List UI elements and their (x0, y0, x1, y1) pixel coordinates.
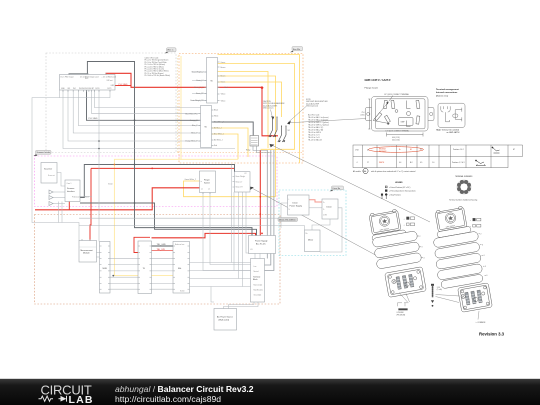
svg-text:+ DC COM24 used: + DC COM24 used (102, 76, 116, 78)
svg-text:Brown: Brown (221, 66, 226, 69)
Motor box (305, 230, 321, 252)
svg-text:OUT0: OUT0 (95, 88, 100, 90)
svg-text:Balancer box: Balancer box (175, 244, 185, 246)
connector assembly 2 band callouts (479, 234, 488, 278)
svg-text:Strain Weight_TR: Strain Weight_TR (190, 99, 204, 102)
Driver box (322, 199, 338, 219)
svg-text:Orange_P: Orange_P (190, 119, 199, 122)
svg-text:o2: o2 (208, 189, 210, 191)
svg-text:Red: Red (214, 145, 217, 147)
svg-text:Green: Green (221, 61, 226, 64)
svg-text:L: L (289, 199, 290, 201)
svg-text:abhungal / Balancer Circuit Re: abhungal / Balancer Circuit Rev3.2 (115, 384, 254, 394)
svg-text:Cam 1: Cam 1 (67, 183, 72, 185)
Scanner Interface box (65, 180, 89, 202)
svg-text:Measurement: Measurement (81, 249, 94, 252)
wire red TBL_24V stub (152, 250, 174, 252)
wire gray driver area (281, 203, 342, 252)
wire red scanner to measurement module (90, 168, 91, 240)
tag Drive Box (330, 186, 344, 191)
terminal strip TB1 top (190, 58, 227, 104)
svg-text:Green: Green (221, 81, 226, 84)
tag note top (165, 48, 177, 54)
svg-text:2-56: 2-56 (437, 287, 440, 289)
svg-text:DC 5 PS2 Output: DC 5 PS2 Output (61, 75, 75, 78)
svg-text:Power Supply: Power Supply (290, 205, 302, 207)
svg-text:2: 2 (420, 236, 421, 238)
wire red from PLC to switch (106, 73, 278, 136)
connector assembly 2 callout icons (470, 218, 481, 228)
svg-text:Internal connections: Internal connections (436, 91, 458, 94)
svg-text:2: 2 (481, 234, 482, 236)
Scanner box (41, 163, 57, 184)
svg-text:Strain_LT: Strain_LT (196, 79, 203, 82)
svg-text:IN2: IN2 (73, 88, 76, 90)
svg-text:K2: K2 (245, 173, 247, 175)
svg-text:Scanner: Scanner (67, 188, 75, 190)
connector assembly 1 band callouts (418, 236, 425, 260)
leader caution note to switch (271, 110, 273, 118)
wire red relay to power supply (259, 150, 261, 236)
wire gray relay bundle down (79, 165, 305, 287)
text block switch note (263, 100, 285, 110)
svg-text:Strain_RT: Strain_RT (196, 92, 204, 95)
svg-text:Red: Red (225, 87, 228, 89)
svg-text:Yellow: Yellow (221, 100, 227, 102)
svg-text:LEGEND: LEGEND (395, 182, 403, 184)
svg-text:TB2: TB2 (204, 127, 207, 129)
svg-text:27: 27 (367, 162, 369, 164)
group box Drive Box (cyan dashed) (279, 190, 346, 256)
connector assembly 1 bands (372, 231, 422, 270)
terminal arrangement drawing (436, 88, 465, 134)
svg-text:+: + (470, 220, 472, 222)
svg-text:0.250 REF: 0.250 REF (397, 312, 404, 314)
svg-text:Bk Blue_J: Bk Blue_J (214, 128, 222, 130)
node red junction (260, 86, 263, 90)
svg-text:White_P: White_P (191, 132, 198, 135)
group box Balancer Box (orange dashed) (179, 54, 303, 164)
wire red PLC right pin stub (115, 85, 131, 87)
svg-text:Driver: Driver (327, 207, 333, 209)
group box Scanner Interface (pink dashed) (35, 156, 278, 207)
svg-text:Blue_P: Blue_P (192, 125, 198, 127)
svg-text:V+: V+ (323, 202, 325, 204)
wire red to finger switch (35, 188, 200, 210)
switch S2 poles (270, 117, 287, 141)
svg-text:LAB: LAB (69, 394, 93, 405)
leader line A switches to connector drawing (288, 119, 366, 123)
svg-text:= Pole and position in these p: = Pole and position in these positions (389, 190, 416, 193)
Finger Switch box (108, 171, 216, 194)
svg-text:Scanner: Scanner (44, 168, 52, 171)
svg-text:AC Power Source: AC Power Source (217, 316, 234, 319)
wire red long horizontal scanner-interface to relay (91, 167, 235, 169)
connector assembly 1 cap (369, 209, 401, 235)
tag Scanner Interface (34, 150, 52, 156)
svg-text:Relay: Relay (246, 150, 250, 152)
svg-text:Green White_2: Green White_2 (185, 178, 196, 181)
leader switch to note (288, 107, 306, 123)
svg-text:(TB) Depressed: (TB) Depressed (306, 105, 318, 108)
svg-text:Box Wir: Box Wir (293, 49, 300, 51)
svg-text:Terminal arrangement: Terminal arrangement (436, 88, 459, 91)
svg-text:PLC GND: PLC GND (119, 84, 128, 86)
tag Box Wire (290, 47, 303, 53)
common label (476, 311, 487, 324)
svg-text:Driver: Driver (293, 203, 299, 205)
connector assembly 2 rib (437, 226, 472, 238)
svg-text:GMP: GMP (401, 122, 406, 124)
text block box wire code (308, 114, 329, 142)
wire gray power supply to terminal block (97, 252, 261, 308)
leader line C relay K2 to assembly1 (249, 187, 381, 259)
group box inner yellow dashed (178, 57, 180, 153)
wire red TB row to power supply (152, 233, 256, 237)
wire yellow finger-switch (184, 181, 276, 197)
terminal strip TB2 mid (185, 106, 224, 148)
svg-text:TB-1-B to BAL-CB: TB-1-B to BAL-CB (308, 139, 323, 142)
svg-text:GMP-1C2T-F / 1A2T-F: GMP-1C2T-F / 1A2T-F (365, 78, 392, 82)
wire gray finger switch to terminal block (203, 193, 251, 271)
wire dark TB2 to relay K1 (212, 122, 254, 146)
svg-text:All models: All models (353, 170, 361, 173)
svg-text:with all options when ordered: with all options when ordered with 'C' o… (371, 170, 416, 173)
svg-text:Green: Green (108, 183, 113, 186)
svg-text:M+: M+ (306, 233, 308, 235)
tag Motor TB (278, 218, 298, 222)
svg-text:1.5: 1.5 (420, 149, 422, 151)
svg-text:o1: o1 (201, 189, 203, 191)
svg-text:on GMP-1A2T-F: on GMP-1A2T-F (447, 131, 461, 134)
wire dark scanner run (80, 165, 235, 198)
leader line B relay to assembly2 (270, 144, 431, 222)
svg-text:40.4 (1.59): 40.4 (1.59) (392, 137, 400, 139)
svg-text:Revision 3.3: Revision 3.3 (479, 332, 505, 337)
svg-text:5: 5 (485, 266, 486, 268)
svg-text:4: 4 (484, 255, 485, 257)
switch contact dots (269, 116, 287, 142)
svg-text:Brown: Brown (221, 75, 226, 78)
svg-text:Interface: Interface (67, 190, 76, 193)
connector assembly 1 leaders and dim (398, 293, 410, 311)
connector assembly 1 callout icons (404, 217, 415, 227)
svg-text:AC-TO-DC: AC-TO-DC (256, 242, 266, 245)
svg-text:IN3 IN4 IN5 IN6 IN7: IN3 IN4 IN5 IN6 IN7 (79, 88, 94, 90)
wire dark PLC GND (87, 90, 201, 120)
svg-text:(2.95): (2.95) (361, 114, 365, 116)
svg-text:24V out: 24V out (107, 79, 113, 82)
svg-text:B-2: B-2 (410, 162, 413, 164)
footer bar (0, 379, 540, 405)
svg-text:Black: Black (214, 110, 218, 112)
svg-text:75.0: 75.0 (362, 112, 365, 114)
svg-text:Blue White_J: Blue White_J (214, 121, 224, 124)
Measurement Module box (79, 239, 97, 262)
svg-text:IN1: IN1 (68, 88, 71, 90)
svg-text:(Bottom view): (Bottom view) (436, 94, 449, 97)
table switch glyph row2 (475, 160, 485, 166)
CircuitLab logo (39, 382, 93, 405)
svg-text:Drive Bo: Drive Bo (333, 188, 342, 190)
svg-text:Motor_TB_CW/rev: Motor_TB_CW/rev (279, 218, 296, 221)
connector assembly 2 bands (433, 231, 483, 289)
svg-text:0.5: 0.5 (420, 162, 422, 164)
svg-text:Motor: Motor (308, 239, 313, 242)
wire dark PLC top loop to power supply (69, 62, 252, 236)
svg-text:Scanner Interfa: Scanner Interfa (37, 151, 52, 154)
wire salmon driver supply (309, 200, 322, 202)
wire dark TBL_GND stub (152, 245, 174, 247)
wire pale-yellow long run to BAL block (114, 56, 181, 276)
svg-text:3: 3 (482, 244, 483, 246)
svg-text:Strain Weight_2: Strain Weight_2 (192, 71, 204, 74)
svg-text:ET: ET (513, 149, 515, 151)
svg-text:PCA scanner interface: PCA scanner interface (72, 195, 89, 198)
Power Supply box (249, 236, 276, 254)
svg-text:Wire C: Wire C (167, 50, 174, 52)
connector assembly 2 base (458, 283, 493, 313)
svg-text:6: 6 (487, 275, 488, 277)
svg-text:Orange White_P: Orange White_P (185, 140, 198, 143)
svg-text:1.0: 1.0 (432, 162, 434, 164)
svg-text:Terminal: Terminal (253, 276, 261, 279)
svg-text:Blue White_J: Blue White_J (214, 133, 224, 136)
svg-text:PLC GND: PLC GND (89, 118, 98, 120)
svg-text:White: White (214, 115, 218, 118)
svg-text:B+: B+ (399, 149, 401, 151)
terminal block TB-A (100, 242, 111, 294)
wire gray IC2 left stubs (192, 72, 207, 101)
ratings table (353, 145, 523, 168)
svg-text:Blue White_Pha: Blue White_Pha (185, 112, 197, 115)
svg-text:(Wall outlet): (Wall outlet) (219, 318, 230, 321)
wire dark lower run (80, 203, 257, 236)
connector arrows scanner (49, 190, 53, 206)
svg-text:TERMINAL NUMBERS: TERMINAL NUMBERS (455, 175, 473, 178)
svg-text:Yellow: Yellow (221, 94, 227, 96)
svg-text:RED/WHT: RED/WHT (379, 151, 386, 153)
svg-text:0.4: 0.4 (399, 162, 401, 164)
svg-text:Switch: Switch (204, 181, 210, 184)
svg-text:4: 4 (357, 162, 358, 164)
svg-text:UL: UL (364, 171, 367, 173)
node junction dots (98, 119, 263, 276)
svg-text:Power Supply: Power Supply (255, 241, 267, 243)
svg-text:RED/BLK: RED/BLK (379, 148, 387, 150)
svg-text:in: in (201, 181, 202, 183)
svg-text:Bk White_J: Bk White_J (214, 139, 223, 142)
table switch glyph row1 (492, 147, 500, 153)
wire gray scanner connections (53, 173, 92, 223)
group box lower (tan dashed) (35, 215, 281, 305)
svg-text:1 NO: 1 NO (355, 150, 359, 152)
svg-text:PLC-B-0 to TB1 for (Brown Whit: PLC-B-0 to TB1 for (Brown White) (145, 74, 171, 77)
UL mark and note below table (353, 168, 416, 173)
svg-text:42: 42 (367, 150, 369, 152)
svg-text:OUT1: OUT1 (107, 88, 112, 90)
GROUPBOXES (35, 53, 347, 304)
svg-text:Flange mount: Flange mount (365, 87, 379, 90)
svg-text:Finger: Finger (204, 180, 210, 182)
svg-text:TB1: TB1 (210, 81, 213, 83)
connector assembly 2 cap (435, 206, 467, 232)
svg-text:http://circuitlab.com/cajs89d: http://circuitlab.com/cajs89d (115, 394, 221, 404)
svg-text:TBL_GND: TBL_GND (157, 244, 167, 246)
text block right note (306, 99, 328, 108)
wire gray TB interconnect rows (110, 258, 251, 289)
svg-text:(7 in-lb): (7 in-lb) (437, 289, 443, 291)
svg-text:Module: Module (83, 253, 90, 255)
bolt symbol (431, 284, 460, 307)
wire red TB2 elbow (134, 237, 150, 252)
connector assembly 1 base (385, 267, 427, 298)
svg-text:= Detent Positions (45° ± 90°): = Detent Positions (45° ± 90°) (389, 186, 411, 189)
svg-text:S2: S2 (288, 130, 290, 132)
relay K2 module (233, 172, 251, 192)
svg-text:(TB) Contacts: (TB) Contacts (263, 107, 274, 110)
svg-text:Ground(in): Ground(in) (254, 295, 262, 297)
svg-text:Note: Terminal #4 is omitted: Note: Terminal #4 is omitted (437, 128, 460, 131)
wire red scanner interface to rail (69, 200, 74, 210)
svg-text:+: + (404, 219, 406, 221)
svg-text:1/4" QUICK CONNECT TERMINAL: 1/4" QUICK CONNECT TERMINAL (384, 93, 409, 96)
Terminal Block vertical (251, 259, 265, 303)
svg-text:MMB: MMB (103, 268, 108, 270)
wire yellow nest from TB1 right pins (212, 55, 300, 197)
PLC U1 (60, 73, 128, 120)
svg-text:= Stop Positions: = Stop Positions (389, 193, 401, 196)
AC Power Source box (214, 309, 237, 331)
svg-text:46.2 (1.82): 46.2 (1.82) (392, 140, 400, 142)
svg-text:Positions 1, 2 & 3: Positions 1, 2 & 3 (452, 161, 465, 164)
svg-text:↳ COMMON: ↳ COMMON (476, 321, 487, 324)
legend block (381, 182, 416, 199)
svg-text:Strain_LT_B: Strain_LT_B (194, 86, 204, 89)
flange mount connector drawing (361, 93, 435, 142)
wire gray switch bundle to terminal block (265, 150, 274, 271)
svg-text:Block: Block (253, 279, 258, 281)
svg-text:WHITE: WHITE (379, 162, 384, 164)
connector assembly 1 rib (372, 230, 407, 242)
svg-text:+: + (404, 225, 406, 227)
text block cable wire code (145, 57, 171, 78)
svg-text:3: 3 (422, 247, 423, 249)
terminal block BAL (173, 242, 190, 294)
svg-text:TBL_24V: TBL_24V (157, 249, 166, 251)
svg-text:1/4" QUICK CONNECT TERMINAL: 1/4" QUICK CONNECT TERMINAL (386, 129, 410, 132)
svg-text:(P/N DE-9M): (P/N DE-9M) (397, 314, 406, 316)
Driver Power Supply box (288, 195, 310, 215)
svg-text:4: 4 (424, 257, 425, 259)
svg-text:Live: Live (254, 266, 257, 268)
svg-text:DC COM24 Output used: DC COM24 Output used (80, 75, 98, 78)
relay K1 (246, 136, 271, 153)
gear ring terminal marking (449, 175, 477, 201)
svg-text:B2: B2 (410, 149, 412, 151)
wire gray PLC pin fan (32, 90, 235, 242)
svg-text:Terminal numbers molded on hou: Terminal numbers molded on housing (449, 198, 477, 201)
terminal block TB-B (138, 241, 152, 294)
svg-text:MainLive(in): MainLive(in) (254, 285, 263, 287)
group box PLC (gray dashed) (46, 53, 176, 153)
svg-text:BAL: BAL (178, 267, 182, 270)
svg-text:Scan out: Scan out (48, 174, 55, 177)
svg-text:Positions 1 & 2: Positions 1 & 2 (453, 148, 464, 151)
